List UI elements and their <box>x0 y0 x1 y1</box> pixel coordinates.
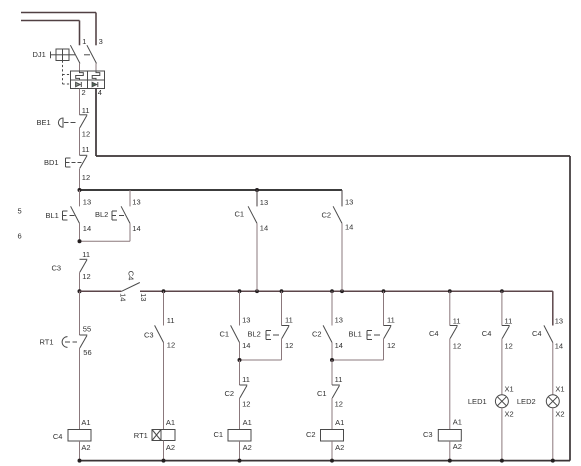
wire bus to C4 contact a <box>449 291 451 325</box>
svg-text:12: 12 <box>453 341 461 350</box>
svg-text:3: 3 <box>99 37 103 46</box>
node bus junction <box>330 289 334 293</box>
svg-text:11: 11 <box>335 375 343 384</box>
coil C3 <box>438 430 461 442</box>
node bus junction <box>340 289 344 293</box>
wire C1 coil to bottom bus <box>239 441 241 461</box>
thermal relay RT1 <box>152 430 175 441</box>
lamp LED1 <box>495 395 508 408</box>
svg-text:13: 13 <box>132 197 140 206</box>
wire RT1 contact to C4 coil <box>79 348 81 430</box>
svg-text:C1: C1 <box>220 330 230 339</box>
wire NC contact down <box>281 339 283 361</box>
svg-text:A2: A2 <box>335 443 344 452</box>
svg-text:13: 13 <box>345 198 353 207</box>
svg-text:12: 12 <box>82 130 90 139</box>
thermal contact RT1 NC <box>62 335 87 348</box>
wire bus to RT1 contact <box>79 291 81 335</box>
wire C2 top feeder corner <box>341 190 343 206</box>
switch BD1 NC contact <box>66 155 88 168</box>
svg-text:55: 55 <box>83 324 91 333</box>
wire BE1 to BD1 <box>79 128 81 156</box>
contact C2 NO <box>323 325 332 342</box>
switch BL1 NO contact <box>63 206 80 223</box>
wire pole2 down <box>95 89 97 157</box>
wire LED1 to bottom bus <box>501 408 503 461</box>
svg-text:1: 1 <box>82 37 86 46</box>
contact BL2 NC <box>266 326 289 340</box>
contact C4b NC <box>502 326 510 339</box>
wire C3 coil to bottom bus <box>449 441 451 461</box>
svg-text:11: 11 <box>387 316 395 325</box>
wire top distribution line <box>80 189 343 191</box>
svg-text:A1: A1 <box>453 418 462 427</box>
svg-text:5: 5 <box>18 207 22 216</box>
svg-text:A1: A1 <box>166 418 175 427</box>
wire L2 feed <box>21 20 80 22</box>
node bottom bus junction <box>238 459 242 463</box>
node bottom bus junction <box>78 459 82 463</box>
contact C3 NC <box>80 259 88 272</box>
svg-text:14: 14 <box>335 341 343 350</box>
wire bus to C1 contact <box>239 291 241 325</box>
svg-text:12: 12 <box>82 272 90 281</box>
lamp LED2 <box>546 395 559 408</box>
node merge junction <box>238 358 242 362</box>
wire RT1 relay to bottom bus <box>163 441 165 461</box>
svg-text:RT1: RT1 <box>40 338 54 347</box>
wire NO contact to merge <box>331 343 333 361</box>
svg-text:14: 14 <box>260 224 268 233</box>
wire main bus left segment <box>80 290 122 292</box>
svg-text:C4: C4 <box>53 432 63 441</box>
svg-text:C4: C4 <box>127 271 136 281</box>
wire C2 top contact to bus <box>341 223 343 291</box>
coil C1 <box>228 430 251 442</box>
svg-text:A2: A2 <box>453 442 462 451</box>
svg-text:C2: C2 <box>306 430 316 439</box>
svg-text:14: 14 <box>345 222 353 231</box>
contact C2 top NO <box>333 206 342 223</box>
wire BL2 feeder tap <box>129 190 131 206</box>
wire C2 contact to coil <box>239 398 241 430</box>
svg-text:12: 12 <box>387 341 395 350</box>
contact C3 NO rung <box>155 325 164 342</box>
svg-text:11: 11 <box>82 106 90 115</box>
svg-text:14: 14 <box>132 224 140 233</box>
svg-text:13: 13 <box>335 316 343 325</box>
svg-text:12: 12 <box>242 400 250 409</box>
node junction C1 feeder tap <box>255 188 259 192</box>
wire merge horizontal <box>332 359 384 361</box>
wire bus to C4 contact b <box>501 291 503 325</box>
wire merge to C2 contact <box>239 360 241 385</box>
wire BL1 down to merge node <box>79 223 81 241</box>
svg-text:BL2: BL2 <box>95 210 108 219</box>
breaker DJ1 <box>51 45 105 88</box>
svg-text:C2: C2 <box>312 330 322 339</box>
svg-text:X1: X1 <box>505 385 514 394</box>
svg-text:C4: C4 <box>532 329 542 338</box>
svg-text:A1: A1 <box>81 418 90 427</box>
svg-text:C4: C4 <box>482 329 492 338</box>
wire C4c contact to LED2 <box>552 343 554 395</box>
wire merge horizontal <box>240 359 282 361</box>
svg-text:56: 56 <box>83 348 91 357</box>
svg-text:RT1: RT1 <box>134 431 148 440</box>
wire C4a contact to C3 coil <box>449 339 451 430</box>
wire bus to BL1 contact <box>383 291 385 325</box>
switch BL2 NO contact <box>112 206 130 223</box>
wire merge to C1 contact <box>331 360 333 385</box>
wire bus corner down to C4 contact c <box>552 291 554 325</box>
wire L2 drop to DJ1 pin 1 <box>79 21 81 46</box>
contact C1 top NO <box>248 206 257 223</box>
svg-text:LED2: LED2 <box>517 397 536 406</box>
svg-text:14: 14 <box>555 341 563 350</box>
svg-text:C3: C3 <box>423 430 433 439</box>
wire bus to C2 contact <box>331 291 333 325</box>
wire bottom bus <box>80 460 571 462</box>
svg-text:13: 13 <box>260 198 268 207</box>
svg-text:C4: C4 <box>429 329 439 338</box>
svg-text:C1: C1 <box>214 430 224 439</box>
wire C3 to bus <box>79 272 81 291</box>
svg-text:DJ1: DJ1 <box>33 50 46 59</box>
svg-text:X2: X2 <box>505 409 514 418</box>
svg-text:C2: C2 <box>225 389 235 398</box>
node bus left junction <box>78 289 82 293</box>
wire L1 drop to DJ1 pin 3 <box>95 13 97 46</box>
wire BL2 merge horizontal <box>80 240 131 242</box>
wire right edge return <box>569 156 571 461</box>
wire C4 coil to bottom bus <box>79 441 81 461</box>
node bottom bus junction <box>330 459 334 463</box>
coil C2 <box>321 430 344 442</box>
svg-text:C1: C1 <box>235 210 245 219</box>
node N1 junction <box>78 188 82 192</box>
wire C2 coil to bottom bus <box>331 441 333 461</box>
node bottom bus junction <box>162 459 166 463</box>
wire C1 top contact to bus <box>256 223 258 291</box>
svg-text:C3: C3 <box>144 330 154 339</box>
svg-text:13: 13 <box>139 293 148 301</box>
node bottom bus junction <box>448 459 452 463</box>
svg-text:LED1: LED1 <box>468 397 487 406</box>
svg-text:14: 14 <box>118 293 127 301</box>
wire main bus right segment <box>140 290 553 292</box>
svg-text:11: 11 <box>505 317 513 326</box>
wire LED2 to bottom bus <box>552 408 554 461</box>
svg-text:BL1: BL1 <box>349 330 362 339</box>
contact C1 NC <box>332 385 340 398</box>
svg-text:11: 11 <box>167 316 175 325</box>
svg-text:2: 2 <box>82 88 86 97</box>
wire C1 top feeder stub <box>256 190 258 206</box>
node merge junction <box>330 358 334 362</box>
node bottom bus junction <box>500 459 504 463</box>
svg-text:13: 13 <box>83 197 91 206</box>
svg-text:X1: X1 <box>555 385 564 394</box>
svg-text:A1: A1 <box>335 418 344 427</box>
svg-text:6: 6 <box>18 232 22 241</box>
node bus junction <box>238 289 242 293</box>
svg-text:11: 11 <box>82 250 90 259</box>
wire C1 contact to coil <box>331 398 333 430</box>
wire pole1 down to BE1 <box>79 89 81 115</box>
svg-text:12: 12 <box>82 173 90 182</box>
contact BL1 NC <box>367 326 391 340</box>
wire bus to C3 contact <box>163 291 165 325</box>
contact C4 horizontal NO blade <box>121 283 140 292</box>
wire NC contact down <box>383 339 385 361</box>
svg-text:C2: C2 <box>322 210 332 219</box>
node bus junction <box>162 289 166 293</box>
svg-text:A2: A2 <box>166 443 175 452</box>
wire bus to BL2 contact <box>281 291 283 325</box>
svg-text:BD1: BD1 <box>44 158 59 167</box>
wire N1 to BL1 <box>79 190 81 206</box>
svg-text:BE1: BE1 <box>37 118 51 127</box>
svg-text:BL2: BL2 <box>248 330 261 339</box>
svg-text:11: 11 <box>285 316 293 325</box>
wire pole2 across top right <box>96 155 570 157</box>
contact C4c NO <box>544 325 553 342</box>
node BL merge junction <box>78 239 82 243</box>
svg-text:A1: A1 <box>243 418 252 427</box>
svg-text:13: 13 <box>555 317 563 326</box>
node bus junction <box>280 289 284 293</box>
svg-text:11: 11 <box>242 375 250 384</box>
svg-text:4: 4 <box>98 88 102 97</box>
svg-text:C3: C3 <box>52 263 62 272</box>
node bus junction <box>500 289 504 293</box>
coil C4 <box>68 430 91 442</box>
node bus junction <box>448 289 452 293</box>
svg-text:13: 13 <box>242 316 250 325</box>
node bus junction <box>255 289 259 293</box>
svg-text:12: 12 <box>285 341 293 350</box>
wire NO contact to merge <box>239 343 241 361</box>
svg-text:12: 12 <box>505 341 513 350</box>
node bottom bus junction <box>551 459 555 463</box>
wire C3 contact to RT1 relay <box>163 343 165 430</box>
svg-text:11: 11 <box>82 145 90 154</box>
pushbutton BE1 NC contact <box>58 115 87 128</box>
wire BL2 down <box>129 223 131 241</box>
contact C1 NO <box>231 325 240 342</box>
wire L1 feed top <box>21 12 96 14</box>
svg-text:12: 12 <box>167 341 175 350</box>
node bus junction <box>382 289 386 293</box>
svg-text:12: 12 <box>335 400 343 409</box>
svg-text:C1: C1 <box>317 389 327 398</box>
svg-text:A2: A2 <box>243 443 252 452</box>
wire C4b contact to LED1 <box>501 339 503 395</box>
svg-text:X2: X2 <box>555 409 564 418</box>
svg-text:A2: A2 <box>81 443 90 452</box>
contact C4a NC <box>450 326 458 339</box>
svg-text:14: 14 <box>83 224 91 233</box>
svg-text:11: 11 <box>453 317 461 326</box>
svg-text:14: 14 <box>242 341 250 350</box>
contact C2 NC <box>240 385 248 398</box>
wire BD1 to node N1 <box>79 169 81 191</box>
svg-text:BL1: BL1 <box>46 211 59 220</box>
